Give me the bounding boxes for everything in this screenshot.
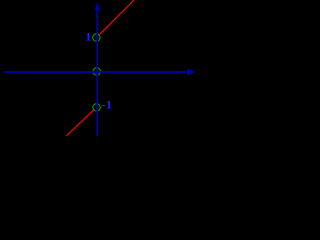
x-axis wire xyxy=(4,71,188,73)
y-axis arrowhead xyxy=(95,3,100,11)
red ray y=x+1 for x>0 xyxy=(99,0,134,35)
open circle at origin xyxy=(93,68,100,75)
open circle at (0,-1) xyxy=(93,104,100,111)
open circle at (0,1) xyxy=(93,34,100,41)
red ray y=x-1 for x<0 xyxy=(66,109,94,135)
x-axis arrowhead xyxy=(187,69,195,75)
y-axis wire xyxy=(96,10,98,137)
svg-text:1: 1 xyxy=(85,30,91,44)
y-axis arrow barbs xyxy=(93,3,97,6)
svg-text:-1: -1 xyxy=(102,98,112,112)
